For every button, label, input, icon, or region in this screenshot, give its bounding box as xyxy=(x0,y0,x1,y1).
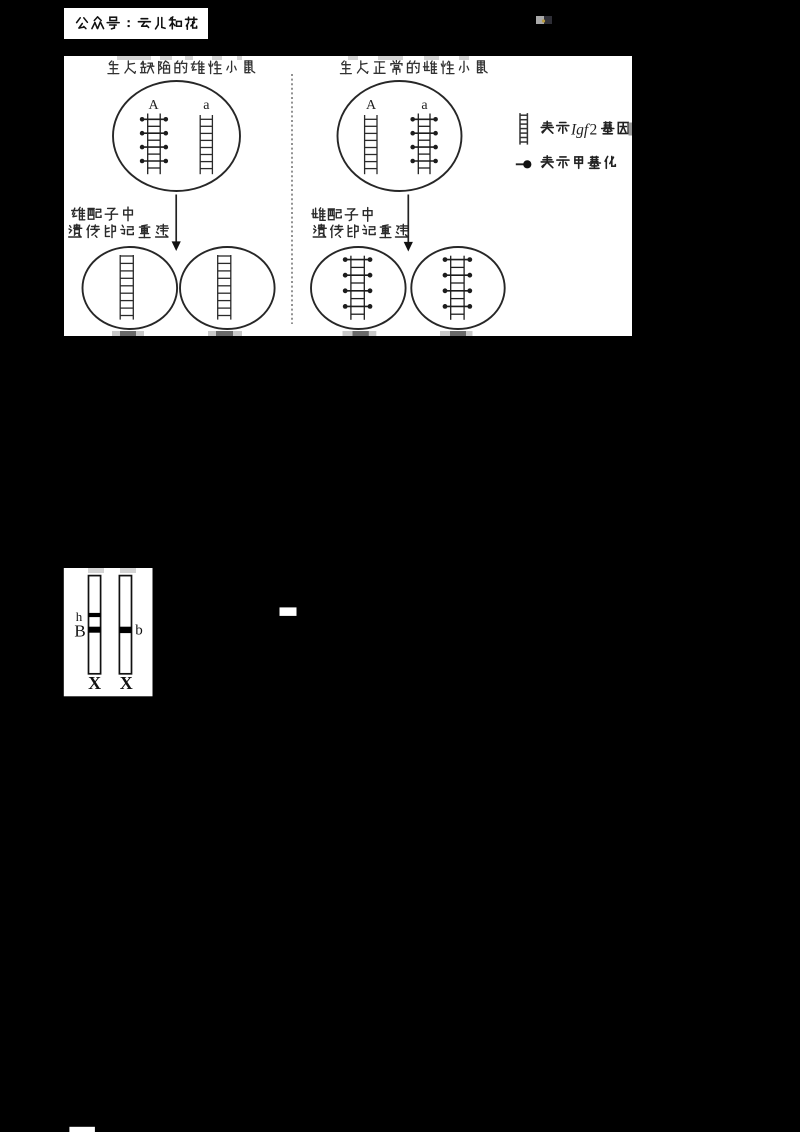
right X chromosome bar xyxy=(119,576,131,674)
legend methylation icon xyxy=(516,163,524,165)
svg-text:b: b xyxy=(135,623,143,639)
band b on right bar xyxy=(119,627,131,633)
top-left white label box xyxy=(64,8,208,39)
bottom-right gamete ellipse 2 xyxy=(411,247,504,329)
bottom-right gamete ellipse 1 xyxy=(311,247,406,329)
svg-text:X: X xyxy=(88,673,101,693)
bottom-left white mark xyxy=(69,1127,95,1132)
dashed divider xyxy=(291,74,293,324)
svg-text:B: B xyxy=(74,622,85,641)
right arrow xyxy=(407,195,409,244)
small two-tone marker top right xyxy=(536,16,544,24)
svg-text:A: A xyxy=(148,98,159,113)
svg-text:A: A xyxy=(366,98,377,113)
svg-text:Igf: Igf xyxy=(570,122,591,139)
legend text 表示甲基化 xyxy=(541,156,615,169)
legend text 表示Igf2基因 xyxy=(541,121,569,133)
label text 公众号：云儿和花 xyxy=(77,17,197,29)
white dash mark xyxy=(280,607,297,616)
right cell: methylated ladder a xyxy=(410,114,438,175)
scan smudges above titles xyxy=(117,56,151,60)
gamete 3 methylated ladder xyxy=(343,256,373,320)
bottom-left gamete ellipse 2 xyxy=(180,247,275,329)
left title 生长缺陷的雄性小鼠 xyxy=(108,61,255,74)
X chromosome panel xyxy=(64,568,153,696)
left cell: plain ladder a xyxy=(200,115,212,174)
svg-text:a: a xyxy=(203,98,210,113)
band B on left bar xyxy=(89,627,101,633)
gamete 4 methylated ladder xyxy=(443,256,473,320)
top scan smudges xyxy=(88,568,104,573)
bottom-left gamete ellipse 1 xyxy=(83,247,178,329)
gamete 2 plain ladder xyxy=(218,255,231,320)
gamete 1 plain ladder xyxy=(120,255,133,320)
right big cell ellipse xyxy=(338,81,462,191)
left caption 雄配子中 xyxy=(72,207,133,221)
scan smudges under gamete ellipses xyxy=(112,331,144,336)
svg-text:a: a xyxy=(421,98,428,113)
left X chromosome bar xyxy=(89,576,101,674)
right caption 遗传印记重建 xyxy=(313,224,408,237)
left cell: methylated ladder A xyxy=(140,114,168,175)
left big cell ellipse xyxy=(113,81,240,191)
svg-text:2: 2 xyxy=(590,122,598,139)
band h on left bar xyxy=(89,613,101,617)
gray cursor bar xyxy=(629,123,633,136)
right title 生长正常的雌性小鼠 xyxy=(341,60,488,74)
right caption 雌配子中 xyxy=(312,208,372,222)
main diagram panel xyxy=(64,56,632,336)
svg-text:X: X xyxy=(120,673,133,693)
right cell: plain ladder A xyxy=(365,115,377,174)
left arrow xyxy=(175,195,177,244)
legend Igf2 gene ladder icon xyxy=(520,113,527,145)
left caption 遗传印记重建 xyxy=(69,224,169,237)
